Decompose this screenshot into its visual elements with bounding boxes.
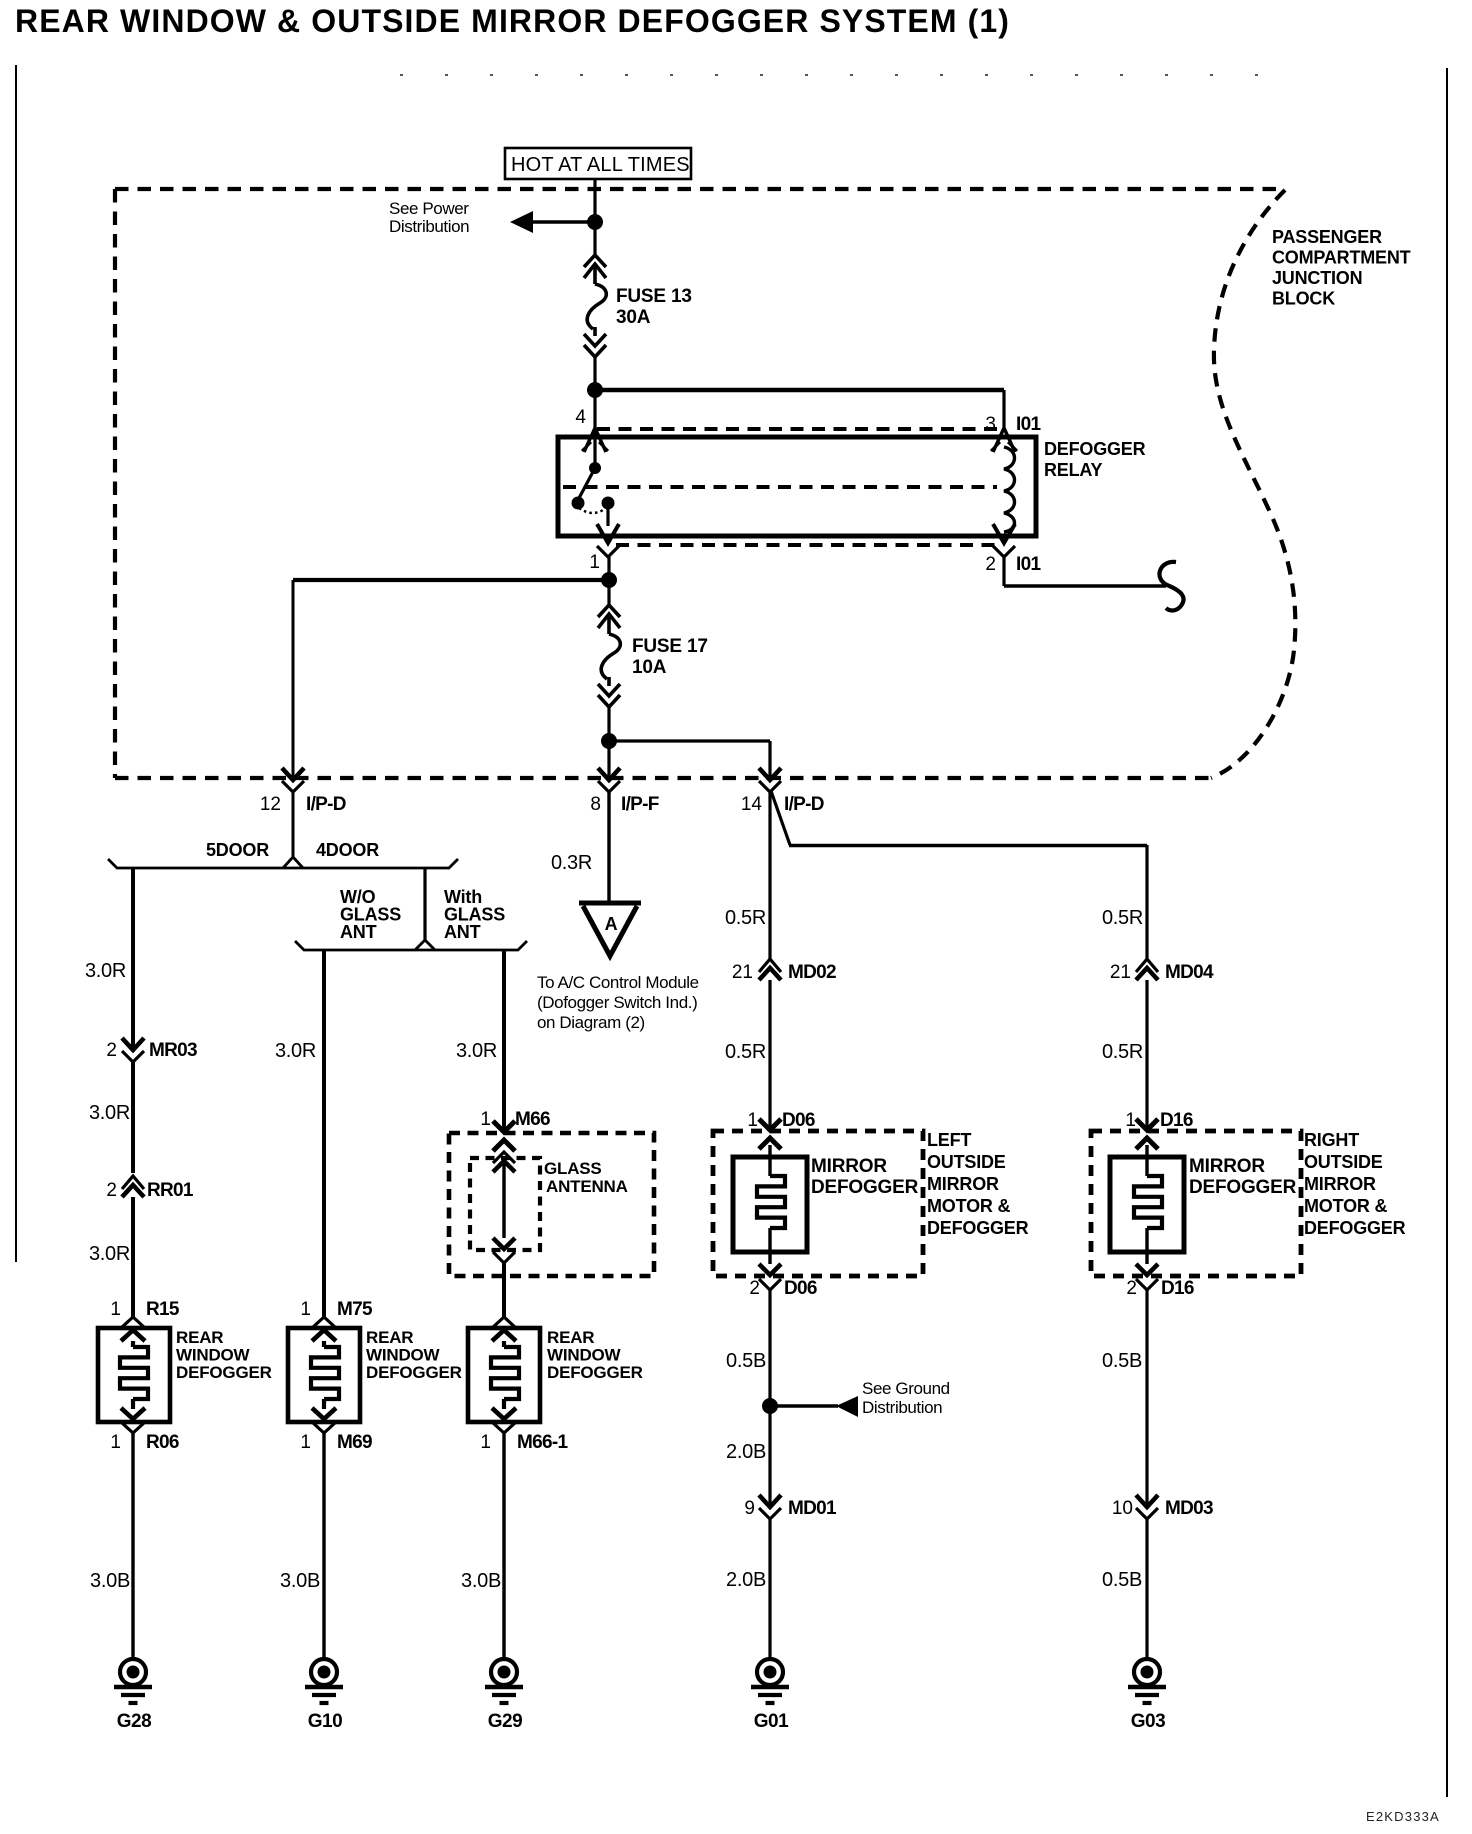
svg-text:5DOOR: 5DOOR: [206, 840, 269, 860]
svg-text:MIRROR: MIRROR: [927, 1174, 999, 1194]
svg-text:2: 2: [1126, 1278, 1137, 1299]
svg-text:MOTOR &: MOTOR &: [1304, 1196, 1387, 1216]
svg-text:DEFOGGER: DEFOGGER: [1044, 439, 1146, 459]
svg-text:MD02: MD02: [788, 962, 836, 983]
svg-text:MOTOR &: MOTOR &: [927, 1196, 1010, 1216]
svg-text:M66-1: M66-1: [517, 1432, 568, 1453]
svg-text:RELAY: RELAY: [1044, 460, 1103, 480]
svg-text:3.0R: 3.0R: [275, 1040, 316, 1062]
svg-text:REAR WINDOW & OUTSIDE MIRROR D: REAR WINDOW & OUTSIDE MIRROR DEFOGGER SY…: [15, 3, 1010, 39]
svg-text:MD04: MD04: [1165, 962, 1214, 983]
svg-text:DEFOGGER: DEFOGGER: [1189, 1177, 1297, 1198]
svg-text:MR03: MR03: [149, 1040, 197, 1061]
svg-text:1: 1: [300, 1299, 311, 1320]
svg-text:0.5B: 0.5B: [1102, 1569, 1142, 1591]
svg-text:1: 1: [110, 1432, 121, 1453]
svg-text:3: 3: [985, 414, 996, 435]
svg-text:Distribution: Distribution: [389, 217, 469, 236]
svg-text:LEFT: LEFT: [927, 1130, 971, 1150]
svg-text:(Dofogger Switch Ind.): (Dofogger Switch Ind.): [537, 993, 697, 1012]
svg-text:M75: M75: [337, 1299, 373, 1320]
svg-text:MIRROR: MIRROR: [1304, 1174, 1376, 1194]
svg-text:8: 8: [590, 794, 601, 815]
svg-text:FUSE 13: FUSE 13: [616, 286, 692, 307]
svg-text:G03: G03: [1131, 1711, 1165, 1732]
svg-text:I/P-D: I/P-D: [784, 794, 824, 815]
svg-text:1: 1: [747, 1110, 758, 1131]
svg-text:4: 4: [575, 407, 586, 428]
svg-text:MD01: MD01: [788, 1498, 837, 1519]
svg-text:D16: D16: [1160, 1110, 1193, 1131]
svg-text:21: 21: [732, 962, 753, 983]
svg-text:Distribution: Distribution: [862, 1398, 942, 1417]
svg-text:WINDOW: WINDOW: [176, 1346, 251, 1365]
svg-text:DEFOGGER: DEFOGGER: [811, 1177, 919, 1198]
svg-text:I01: I01: [1016, 554, 1041, 575]
svg-text:OUTSIDE: OUTSIDE: [1304, 1152, 1383, 1172]
svg-text:0.5R: 0.5R: [1102, 907, 1143, 929]
svg-text:I/P-D: I/P-D: [306, 794, 346, 815]
svg-text:0.5R: 0.5R: [725, 1041, 766, 1063]
svg-text:A: A: [605, 914, 618, 934]
svg-text:G29: G29: [488, 1711, 522, 1732]
svg-text:WINDOW: WINDOW: [547, 1346, 622, 1365]
svg-text:DEFOGGER: DEFOGGER: [547, 1363, 643, 1382]
svg-text:2.0B: 2.0B: [726, 1441, 766, 1463]
svg-text:G10: G10: [308, 1711, 342, 1732]
svg-text:ANTENNA: ANTENNA: [546, 1177, 628, 1196]
svg-text:WINDOW: WINDOW: [366, 1346, 441, 1365]
svg-text:on Diagram (2): on Diagram (2): [537, 1013, 645, 1032]
svg-text:3.0B: 3.0B: [461, 1570, 501, 1592]
svg-text:E2KD333A: E2KD333A: [1366, 1809, 1440, 1824]
svg-text:REAR: REAR: [547, 1328, 594, 1347]
svg-text:OUTSIDE: OUTSIDE: [927, 1152, 1006, 1172]
svg-text:D06: D06: [782, 1110, 815, 1131]
svg-text:2: 2: [985, 554, 996, 575]
svg-text:3.0R: 3.0R: [456, 1040, 497, 1062]
svg-text:1: 1: [300, 1432, 311, 1453]
svg-text:9: 9: [744, 1498, 755, 1519]
svg-text:PASSENGER: PASSENGER: [1272, 227, 1382, 247]
svg-text:2.0B: 2.0B: [726, 1569, 766, 1591]
svg-text:14: 14: [741, 794, 763, 815]
svg-text:R15: R15: [146, 1299, 180, 1320]
svg-text:MIRROR: MIRROR: [811, 1156, 887, 1177]
svg-text:1: 1: [480, 1109, 491, 1130]
svg-text:0.5R: 0.5R: [725, 907, 766, 929]
svg-text:DEFOGGER: DEFOGGER: [927, 1218, 1029, 1238]
svg-text:DEFOGGER: DEFOGGER: [1304, 1218, 1406, 1238]
svg-text:4DOOR: 4DOOR: [316, 840, 379, 860]
svg-text:1: 1: [110, 1299, 121, 1320]
svg-text:G28: G28: [117, 1711, 151, 1732]
svg-text:R06: R06: [146, 1432, 179, 1453]
svg-text:10: 10: [1112, 1498, 1133, 1519]
svg-text:12: 12: [260, 794, 281, 815]
svg-text:10A: 10A: [632, 657, 667, 678]
svg-text:G01: G01: [754, 1711, 789, 1732]
svg-text:3.0B: 3.0B: [90, 1570, 130, 1592]
svg-text:2: 2: [749, 1278, 760, 1299]
svg-text:30A: 30A: [616, 307, 651, 328]
svg-text:DEFOGGER: DEFOGGER: [366, 1363, 462, 1382]
svg-text:0.5B: 0.5B: [1102, 1350, 1142, 1372]
svg-text:FUSE 17: FUSE 17: [632, 636, 708, 657]
svg-text:M66: M66: [515, 1109, 550, 1130]
svg-text:3.0R: 3.0R: [85, 960, 126, 982]
svg-text:See Power: See Power: [389, 199, 469, 218]
svg-text:1: 1: [589, 552, 600, 573]
svg-text:D16: D16: [1161, 1278, 1194, 1299]
svg-text:I/P-F: I/P-F: [621, 794, 659, 815]
svg-text:ANT: ANT: [444, 922, 481, 942]
svg-text:GLASS: GLASS: [544, 1159, 602, 1178]
svg-text:See Ground: See Ground: [862, 1379, 950, 1398]
svg-text:REAR: REAR: [366, 1328, 413, 1347]
svg-text:JUNCTION: JUNCTION: [1272, 268, 1362, 288]
svg-text:D06: D06: [784, 1278, 817, 1299]
svg-text:MD03: MD03: [1165, 1498, 1213, 1519]
svg-text:1: 1: [480, 1432, 491, 1453]
svg-text:To A/C Control Module: To A/C Control Module: [537, 973, 699, 992]
svg-text:0.5R: 0.5R: [1102, 1041, 1143, 1063]
svg-text:M69: M69: [337, 1432, 372, 1453]
svg-text:I01: I01: [1016, 414, 1041, 435]
svg-text:RR01: RR01: [147, 1180, 194, 1201]
svg-text:3.0R: 3.0R: [89, 1102, 130, 1124]
svg-text:1: 1: [1125, 1110, 1136, 1131]
svg-text:21: 21: [1110, 962, 1131, 983]
svg-text:DEFOGGER: DEFOGGER: [176, 1363, 272, 1382]
svg-text:BLOCK: BLOCK: [1272, 289, 1335, 309]
svg-text:2: 2: [106, 1040, 117, 1061]
svg-text:HOT AT ALL TIMES: HOT AT ALL TIMES: [511, 154, 690, 176]
svg-text:0.5B: 0.5B: [726, 1350, 766, 1372]
svg-text:RIGHT: RIGHT: [1304, 1130, 1359, 1150]
svg-text:REAR: REAR: [176, 1328, 223, 1347]
svg-text:3.0R: 3.0R: [89, 1243, 130, 1265]
svg-text:0.3R: 0.3R: [551, 852, 592, 874]
svg-text:2: 2: [106, 1180, 117, 1201]
svg-text:COMPARTMENT: COMPARTMENT: [1272, 248, 1411, 268]
svg-text:3.0B: 3.0B: [280, 1570, 320, 1592]
svg-text:MIRROR: MIRROR: [1189, 1156, 1265, 1177]
svg-text:ANT: ANT: [340, 922, 377, 942]
